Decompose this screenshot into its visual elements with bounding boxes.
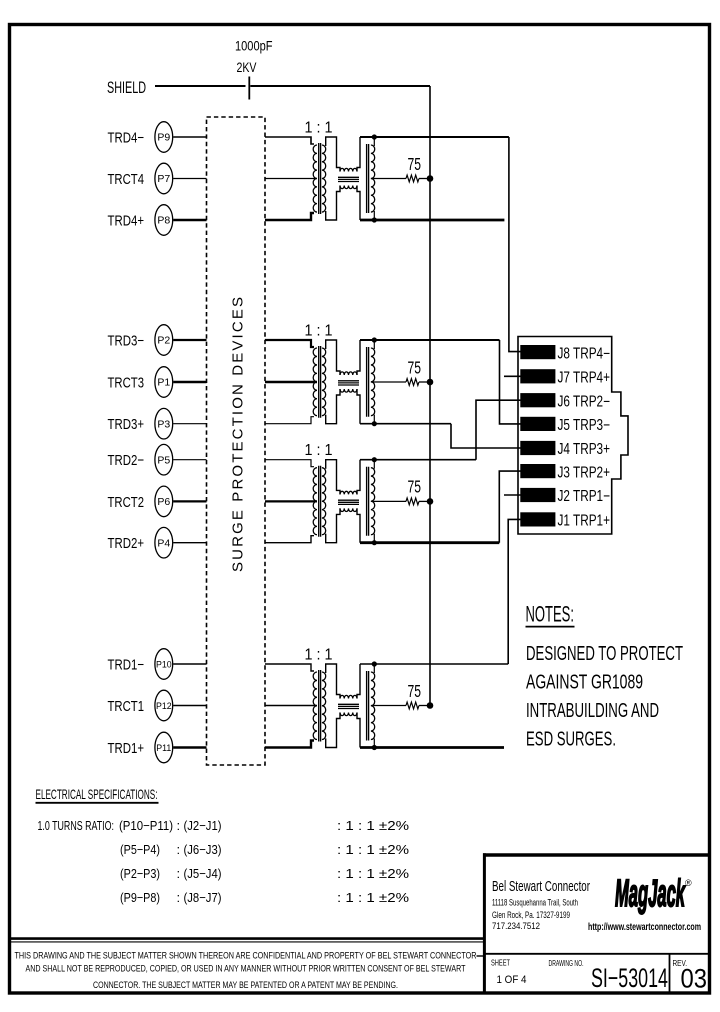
svg-text:1.0 TURNS RATIO:: 1.0 TURNS RATIO: <box>38 818 115 833</box>
T1 secondary winding <box>322 672 326 740</box>
svg-text:MagJack: MagJack <box>615 873 686 915</box>
wire resistor to common net (T3) <box>419 381 430 383</box>
wire T3 output terminal bottom <box>373 415 375 424</box>
wire shield right segment to common net <box>250 85 430 87</box>
wire resistor to common net (T4) <box>419 178 430 180</box>
T1 output winding <box>371 672 375 740</box>
wire T2 secondary to choke top <box>326 460 340 495</box>
svg-text:SI−53014: SI−53014 <box>591 963 668 993</box>
choke T4 bottom coil <box>340 186 357 189</box>
choke T2 bottom coil <box>340 508 357 511</box>
wire T4 output top <box>360 136 509 138</box>
svg-text:TRD2−: TRD2− <box>108 452 145 469</box>
wire choke T3 to output winding top <box>357 340 360 375</box>
svg-text:ESD SURGES.: ESD SURGES. <box>526 729 616 751</box>
choke T4 top coil <box>340 168 357 171</box>
title block left edge <box>483 853 486 993</box>
T3 primary winding <box>313 348 317 416</box>
svg-text:SHEET: SHEET <box>491 958 510 968</box>
T3 output winding core <box>367 347 369 417</box>
node common net junction (T2) <box>427 498 434 505</box>
wire TRP3- net to J5 <box>500 340 522 424</box>
wire TRP4+ stub to J7 <box>504 375 521 377</box>
svg-text:TRD1+: TRD1+ <box>108 740 145 757</box>
svg-text:J7 TRP4+: J7 TRP4+ <box>558 370 611 387</box>
disclaimer box top rule <box>10 937 484 940</box>
pin P5 <box>155 444 173 475</box>
svg-text:1 : 1: 1 : 1 <box>305 646 333 663</box>
svg-text:P6: P6 <box>157 496 170 508</box>
svg-text:INTRABUILDING AND: INTRABUILDING AND <box>526 700 659 722</box>
wire TRD1+ to surge box <box>173 746 206 748</box>
svg-text:75: 75 <box>408 477 422 497</box>
wire TRCT4 to surge box <box>173 178 206 180</box>
svg-text:(P2−P3): (P2−P3) <box>120 866 160 881</box>
wire T2 secondary to choke bottom <box>326 508 340 542</box>
svg-text:P12: P12 <box>156 701 172 711</box>
svg-text:(J8−J7): (J8−J7) <box>184 890 222 905</box>
pin J3 pad <box>520 464 555 478</box>
svg-text:(J2−J1): (J2−J1) <box>184 818 222 833</box>
svg-text:®: ® <box>685 878 692 888</box>
svg-text:(P10−P11): (P10−P11) <box>119 818 173 833</box>
svg-text:: 1 : 1 ±2%: : 1 : 1 ±2% <box>337 890 410 905</box>
svg-text::: : <box>177 842 181 857</box>
pin P2 <box>155 325 173 356</box>
svg-text:TRCT1: TRCT1 <box>108 698 145 715</box>
wire T2 output terminal bottom <box>373 534 375 543</box>
title block divider <box>483 953 710 955</box>
connector jack outline <box>518 337 628 535</box>
svg-text:ELECTRICAL SPECIFICATIONS:: ELECTRICAL SPECIFICATIONS: <box>36 786 158 802</box>
svg-text:Bel Stewart Connector: Bel Stewart Connector <box>492 879 590 895</box>
wire T1 primary center tap <box>265 705 317 707</box>
resistor 75 ohm (T2) <box>406 498 419 505</box>
wire TRCT3 to surge box <box>173 381 206 383</box>
wire TRD4- to surge box <box>173 136 206 138</box>
svg-text:11118 Susquehanna Trail, South: 11118 Susquehanna Trail, South <box>492 898 578 908</box>
node T1 output bottom junction <box>372 745 377 750</box>
node T3 output top junction <box>372 337 377 342</box>
wire T4 output bottom <box>360 219 504 222</box>
wire T2 output bottom <box>360 541 499 544</box>
disclaimer box inner rule <box>10 941 484 943</box>
wire TRP4- net to J8 <box>509 137 521 352</box>
wire T1 primary input top <box>265 664 314 671</box>
wire T4 output terminal top <box>373 137 375 146</box>
surge protection devices box <box>207 117 266 765</box>
T4 output winding core <box>367 144 369 213</box>
svg-text:TRD3−: TRD3− <box>108 333 145 350</box>
wire T4 center tap to resistor <box>371 178 406 180</box>
wire TRP2- net to J6 <box>476 400 521 460</box>
wire T4 primary input top <box>265 137 314 144</box>
svg-text:THIS DRAWING AND THE SUBJECT M: THIS DRAWING AND THE SUBJECT MATTER SHOW… <box>15 951 477 961</box>
pin P8 <box>155 205 173 236</box>
title block top edge <box>483 853 710 856</box>
pin P1 <box>155 367 173 398</box>
T1 output winding core <box>367 671 369 741</box>
T2 primary winding <box>313 468 317 535</box>
svg-text::: : <box>177 818 181 833</box>
choke T4 core <box>338 177 359 181</box>
pin P4 <box>155 527 173 558</box>
node T3 output bottom junction <box>372 421 377 426</box>
svg-text:(J5−J4): (J5−J4) <box>184 866 222 881</box>
svg-text:: 1 : 1 ±2%: : 1 : 1 ±2% <box>337 818 410 833</box>
wire resistor to common net (T1) <box>419 705 430 707</box>
wire common vertical net <box>429 86 431 706</box>
svg-text:P8: P8 <box>157 215 170 227</box>
svg-text:TRD4−: TRD4− <box>108 130 145 147</box>
T3 secondary winding <box>322 348 326 416</box>
wire T3 primary center tap <box>265 381 317 383</box>
resistor 75 ohm (T4) <box>406 175 419 182</box>
svg-text:SURGE PROTECTION DEVICES: SURGE PROTECTION DEVICES <box>230 296 247 572</box>
svg-text:J8 TRP4−: J8 TRP4− <box>558 345 611 362</box>
resistor 75 ohm (T1) <box>406 702 419 709</box>
svg-text:AND SHALL NOT BE REPRODUCED, C: AND SHALL NOT BE REPRODUCED, COPIED, OR … <box>26 964 466 974</box>
svg-text:P10: P10 <box>156 660 172 670</box>
svg-text:1 : 1: 1 : 1 <box>305 442 333 459</box>
wire T2 primary input top <box>265 460 314 467</box>
svg-text:http://www.stewartconnector.co: http://www.stewartconnector.com <box>588 922 701 933</box>
T4 primary winding <box>313 145 317 212</box>
resistor 75 ohm (T3) <box>406 379 419 386</box>
svg-text:1 : 1: 1 : 1 <box>305 119 333 136</box>
svg-text:P7: P7 <box>157 173 170 185</box>
svg-text:TRD3+: TRD3+ <box>108 416 145 433</box>
T2 output winding core <box>367 467 369 536</box>
T1 core <box>319 670 321 742</box>
wire T1 secondary to choke bottom <box>326 713 340 748</box>
pin P3 <box>155 408 173 439</box>
wire T3 primary input bottom <box>265 417 314 424</box>
pin P7 <box>155 163 173 194</box>
svg-text::: : <box>177 866 181 881</box>
svg-text:1 OF 4: 1 OF 4 <box>497 974 527 986</box>
T3 output winding <box>371 348 375 416</box>
wire T3 primary input top <box>265 340 314 347</box>
choke T1 bottom coil <box>340 713 357 716</box>
svg-text:J3 TRP2+: J3 TRP2+ <box>558 464 611 481</box>
electrical specifications underline <box>36 802 159 804</box>
wire TRP1- stub to J2 <box>504 494 521 496</box>
svg-text:717.234.7512: 717.234.7512 <box>492 921 540 931</box>
pin P10 <box>155 649 173 680</box>
choke T2 top coil <box>340 491 357 494</box>
svg-text:P9: P9 <box>157 132 170 144</box>
svg-text:: 1 : 1 ±2%: : 1 : 1 ±2% <box>337 866 410 881</box>
node T4 output bottom junction <box>372 217 377 222</box>
wire T3 center tap to resistor <box>371 381 406 383</box>
wire TRP1+ net to J1 <box>508 519 521 664</box>
pin J5 pad <box>520 417 555 431</box>
pin J6 pad <box>520 393 555 407</box>
wire T1 output top <box>360 663 508 665</box>
T1 primary winding <box>313 672 317 740</box>
wire choke T1 to output winding bottom <box>357 713 360 748</box>
wire choke T1 to output winding top <box>357 664 360 699</box>
svg-text:NOTES:: NOTES: <box>526 601 575 626</box>
wire T2 center tap to resistor <box>371 500 406 502</box>
svg-text::: : <box>177 890 181 905</box>
pin J4 pad <box>520 441 555 455</box>
svg-text:TRCT3: TRCT3 <box>108 375 145 392</box>
wire T1 primary input bottom <box>265 741 314 748</box>
choke T1 top coil <box>340 695 357 698</box>
svg-text:J4 TRP3+: J4 TRP3+ <box>558 441 611 458</box>
wire T3 secondary to choke bottom <box>326 389 340 424</box>
wire TRD3- to surge box <box>173 339 206 341</box>
pin P6 <box>155 486 173 517</box>
choke T1 core <box>338 704 359 708</box>
pin J7 pad <box>520 369 555 383</box>
wire shield left segment <box>155 85 246 87</box>
wire T3 secondary to choke top <box>326 340 340 375</box>
svg-text:TRD2+: TRD2+ <box>108 535 145 552</box>
wire TRD3+ to surge box <box>173 423 206 425</box>
svg-text:(P5−P4): (P5−P4) <box>120 842 160 857</box>
wire TRD2- to surge box <box>173 459 206 461</box>
svg-text:1 : 1: 1 : 1 <box>305 322 333 339</box>
wire resistor to common net (T2) <box>419 500 430 502</box>
wire T3 output bottom <box>360 423 451 425</box>
choke T3 core <box>338 381 359 385</box>
wire choke T2 to output winding bottom <box>357 508 360 542</box>
wire choke T4 to output winding top <box>357 137 360 172</box>
svg-text:J2 TRP1−: J2 TRP1− <box>558 488 611 505</box>
wire choke T4 to output winding bottom <box>357 186 360 221</box>
wire T3 output terminal top <box>373 340 375 349</box>
svg-text:03: 03 <box>681 964 708 994</box>
svg-text:(P9−P8): (P9−P8) <box>120 890 160 905</box>
T2 core <box>319 466 321 537</box>
wire T2 primary center tap <box>265 500 317 502</box>
wire TRD1- to surge box <box>173 663 206 665</box>
wire T1 center tap to resistor <box>371 705 406 707</box>
T3 core <box>319 346 321 418</box>
wire TRD2+ to surge box <box>173 542 206 544</box>
node T4 output top junction <box>372 134 377 139</box>
svg-text:AGAINST GR1089: AGAINST GR1089 <box>526 672 643 694</box>
wire T1 output terminal bottom <box>373 739 375 748</box>
wire TRCT1 to surge box <box>173 705 206 707</box>
wire T4 secondary to choke bottom <box>326 186 340 221</box>
svg-text:2KV: 2KV <box>237 60 257 75</box>
svg-text:75: 75 <box>408 681 422 701</box>
choke T3 bottom coil <box>340 389 357 392</box>
svg-text:TRCT4: TRCT4 <box>108 171 145 188</box>
wire T2 output terminal top <box>373 460 375 469</box>
wire T4 primary input bottom <box>265 213 314 220</box>
node common net junction (T4) <box>427 175 434 182</box>
wire T2 output top <box>360 459 476 461</box>
wire T4 output terminal bottom <box>373 211 375 220</box>
svg-text:CONNECTOR. THE SUBJECT MATTER: CONNECTOR. THE SUBJECT MATTER MAY BE PAT… <box>93 980 398 990</box>
node common net junction (T1) <box>427 702 434 709</box>
svg-text:75: 75 <box>408 357 422 377</box>
svg-text:(J6−J3): (J6−J3) <box>184 842 222 857</box>
choke T3 top coil <box>340 372 357 375</box>
svg-text:P4: P4 <box>157 537 170 549</box>
node T2 output bottom junction <box>372 540 377 545</box>
pin P12 <box>155 690 173 721</box>
svg-text:SHIELD: SHIELD <box>107 79 146 97</box>
wire TRP2+ net to J3 <box>499 471 521 543</box>
wire T1 secondary to choke top <box>326 664 340 699</box>
wire TRP3+ net to J4 <box>451 424 521 448</box>
capacitor C1 plate <box>248 77 250 100</box>
svg-text:P3: P3 <box>157 418 170 430</box>
wire T3 output top <box>360 339 500 341</box>
title block divider left stub <box>477 955 485 957</box>
T2 secondary winding <box>322 468 326 535</box>
wire T4 primary center tap <box>265 178 317 180</box>
svg-text:75: 75 <box>408 154 422 174</box>
title block rev divider <box>669 954 671 992</box>
svg-text:J5 TRP3−: J5 TRP3− <box>558 417 611 434</box>
node common net junction (T3) <box>427 379 434 386</box>
svg-text:Glen Rock, Pa. 17327-9199: Glen Rock, Pa. 17327-9199 <box>492 910 570 920</box>
svg-text:P11: P11 <box>156 743 171 753</box>
wire TRD4+ to surge box <box>173 219 206 221</box>
wire choke T2 to output winding top <box>357 460 360 495</box>
svg-text:DESIGNED TO PROTECT: DESIGNED TO PROTECT <box>526 643 683 665</box>
T4 output winding <box>371 145 375 212</box>
pin J2 pad <box>520 488 555 502</box>
svg-text:P2: P2 <box>157 335 170 347</box>
choke T2 core <box>338 500 359 504</box>
pin J1 pad <box>520 512 555 526</box>
T2 output winding <box>371 468 375 535</box>
pin J8 pad <box>520 345 555 359</box>
wire TRCT2 to surge box <box>173 500 206 502</box>
svg-text:TRD1−: TRD1− <box>108 657 145 674</box>
node T1 output top junction <box>372 661 377 666</box>
svg-text:: 1 : 1 ±2%: : 1 : 1 ±2% <box>337 842 410 857</box>
notes underline <box>526 626 575 628</box>
T4 secondary winding <box>322 145 326 212</box>
wire T1 output terminal top <box>373 664 375 673</box>
wire T2 primary input bottom <box>265 536 314 543</box>
svg-text:J6 TRP2−: J6 TRP2− <box>558 393 611 410</box>
wire choke T3 to output winding bottom <box>357 389 360 424</box>
svg-text:1000pF: 1000pF <box>235 39 273 54</box>
node T2 output top junction <box>372 457 377 462</box>
svg-text:TRD4+: TRD4+ <box>108 213 145 230</box>
wire T4 secondary to choke top <box>326 137 340 172</box>
svg-text:P5: P5 <box>157 454 170 466</box>
wire T1 output bottom <box>360 746 504 749</box>
pin P9 <box>155 122 173 153</box>
T4 core <box>319 143 321 214</box>
svg-text:J1 TRP1+: J1 TRP1+ <box>558 513 611 530</box>
pin P11 <box>155 732 173 763</box>
svg-text:DRAWING NO.: DRAWING NO. <box>549 958 584 968</box>
svg-text:P1: P1 <box>157 377 170 389</box>
svg-text:TRCT2: TRCT2 <box>108 494 145 511</box>
